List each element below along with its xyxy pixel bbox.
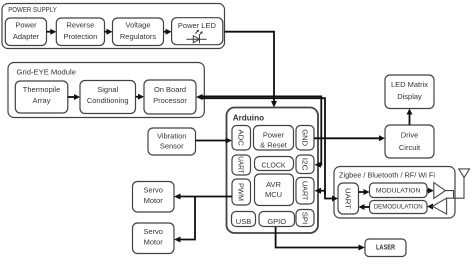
wire Reverse Protection to Voltage Regulators (105, 31, 108, 33)
port SPI (296, 210, 314, 227)
svg-text:Protection: Protection (64, 32, 98, 41)
svg-text:Power: Power (263, 130, 285, 139)
arrowhead into LASER (359, 245, 366, 251)
svg-text:Power: Power (15, 21, 37, 30)
svg-text:Array: Array (33, 96, 51, 105)
block AVR MCU (255, 174, 294, 206)
svg-text:AVR: AVR (266, 180, 281, 189)
svg-text:POWER SUPPLY: POWER SUPPLY (8, 5, 57, 14)
amplifier bottom triangle (433, 198, 447, 214)
arrowhead into UART zigbee (from demodulation) (359, 204, 365, 210)
svg-text:MODULATION: MODULATION (376, 188, 421, 195)
arrowhead into MODULATION (364, 189, 370, 195)
port UART left (232, 155, 251, 175)
arrowhead into LED Matrix Display (407, 109, 413, 115)
wire PWM to Servo Motor 1 (180, 196, 233, 198)
LED arrowhead 1 (196, 30, 199, 33)
svg-text:Servo: Servo (143, 185, 163, 194)
svg-text:Drive: Drive (401, 131, 419, 140)
amplifier top triangle (434, 183, 446, 199)
wire amplifier apex to antenna node (445, 191, 453, 199)
arrowhead into Signal Conditioning (74, 94, 80, 100)
block Servo Motor 2 (133, 223, 175, 254)
arrowhead into Arduino top (271, 101, 277, 108)
arrowhead into DEMODULATION (427, 204, 433, 210)
wire UART tap down to zigbee (325, 191, 333, 199)
arrowhead into I2C (315, 162, 322, 168)
arrowhead into Reverse Protection (50, 29, 56, 35)
arrowhead into amplifier (428, 188, 434, 194)
arrowhead into On Board Processor (from Signal) (138, 94, 144, 100)
wire On Board Processor to I2C (elbow) (202, 96, 321, 160)
block On Board Processor (144, 80, 196, 114)
wire UART zigbee to MODULATION (359, 191, 365, 193)
block Power & Reset (254, 126, 294, 151)
wire Voltage Regulators to Power LED (164, 31, 167, 33)
block MODULATION (370, 183, 428, 198)
svg-text:SPI: SPI (301, 212, 310, 225)
port PWM (232, 179, 251, 205)
svg-text:UART: UART (344, 188, 353, 209)
svg-text:Thermopile: Thermopile (23, 85, 61, 94)
block Power Adapter (5, 18, 46, 46)
svg-text:GPIO: GPIO (267, 217, 286, 226)
arrowhead into Servo Motor 1 (174, 194, 181, 200)
wire Signal to On Board Processor (136, 96, 140, 98)
port GPIO (259, 212, 295, 227)
wire elbow turn into I2C (320, 161, 323, 165)
block Vibration Sensor (148, 128, 196, 155)
block Reverse Protection (56, 18, 104, 46)
svg-text:Arduino: Arduino (233, 114, 264, 123)
wire UART right to tap (321, 190, 326, 192)
svg-text:LED Matrix: LED Matrix (391, 80, 428, 89)
arrowhead into Voltage Regulators (107, 29, 113, 35)
block LASER (365, 239, 406, 257)
svg-text:USB: USB (236, 217, 251, 226)
wire PSU to Arduino (225, 32, 275, 102)
block Voltage Regulators (113, 18, 164, 46)
svg-text:MCU: MCU (265, 190, 282, 199)
svg-text:ADC: ADC (237, 129, 246, 146)
wire Vibration Sensor to ADC (196, 140, 227, 142)
svg-text:Circuit: Circuit (399, 143, 421, 152)
svg-text:PWM: PWM (237, 183, 246, 201)
wire MODULATION to amplifier (427, 190, 429, 192)
svg-text:GND: GND (301, 129, 310, 147)
svg-text:DEMODULATION: DEMODULATION (374, 204, 423, 211)
diode triangle (193, 36, 199, 43)
antenna (459, 169, 470, 178)
group POWER SUPPLY (2, 4, 225, 49)
svg-text:On Board: On Board (154, 85, 186, 94)
svg-text:Conditioning: Conditioning (87, 96, 129, 105)
svg-text:Motor: Motor (144, 196, 164, 205)
svg-text:Processor: Processor (153, 96, 187, 105)
svg-text:Reverse: Reverse (66, 21, 94, 30)
port GND (296, 126, 314, 151)
wire GND to Drive Circuit (314, 137, 380, 139)
svg-text:I2C: I2C (301, 158, 310, 172)
LED symbol in Power LED box (186, 30, 206, 43)
svg-text:Grid-EYE Module: Grid-EYE Module (17, 67, 77, 76)
arrowhead into ADC (226, 138, 233, 144)
svg-text:Vibration: Vibration (157, 131, 186, 140)
wires and arrows (47, 32, 433, 248)
svg-text:Regulators: Regulators (120, 32, 157, 41)
svg-text:LASER: LASER (376, 245, 395, 252)
block Servo Motor 1 (133, 182, 175, 213)
group Arduino (227, 108, 319, 234)
arrowhead into Power LED (166, 29, 172, 35)
port UART zigbee (338, 183, 359, 214)
wire Drive Circuit to LED Matrix (409, 114, 411, 125)
arrowhead into Drive Circuit (379, 135, 385, 141)
svg-text:Power LED: Power LED (178, 21, 217, 30)
wire GPIO to LASER (276, 227, 360, 248)
wire On Board Processor to UART tap (vertical) (202, 98, 325, 194)
LED emission arrows (195, 30, 198, 33)
svg-text:CLOCK: CLOCK (261, 163, 285, 170)
arrowhead into UART zigbee (from arduino) (332, 196, 338, 202)
svg-text:Adapter: Adapter (13, 32, 40, 41)
svg-text:Zigbee / Bluetooth / RF/ Wi Fi: Zigbee / Bluetooth / RF/ Wi Fi (339, 171, 435, 180)
arrowhead into On Board Processor (from I2C wire) (196, 94, 203, 100)
svg-text:UART: UART (301, 181, 310, 201)
svg-text:Signal: Signal (97, 85, 118, 94)
block LED Matrix Display (385, 75, 434, 109)
arrowhead into Servo Motor 2 (174, 237, 181, 243)
block Drive Circuit (385, 125, 434, 158)
block DEMODULATION (370, 201, 428, 214)
wire Thermopile to Signal (68, 96, 75, 98)
wire DEMODULATION to UART zigbee (364, 206, 370, 208)
wire branch to Servo Motor 2 (180, 197, 196, 240)
svg-text:Sensor: Sensor (160, 141, 184, 150)
LED arrowhead 2 (200, 31, 203, 34)
port ADC (232, 126, 251, 151)
diode wire (186, 38, 206, 40)
svg-text:& Reset: & Reset (260, 141, 288, 150)
svg-text:Display: Display (397, 92, 422, 101)
arrowheads (50, 29, 434, 251)
port USB (232, 212, 256, 227)
block Power LED (172, 18, 223, 45)
group Zigbee / Bluetooth / RF / WiFi (334, 167, 455, 219)
svg-text:UART: UART (237, 156, 246, 174)
port I2C (296, 155, 314, 174)
wire antenna feed (447, 178, 464, 199)
block CLOCK (255, 157, 294, 171)
svg-text:Servo: Servo (143, 227, 163, 236)
rotated port labels (237, 129, 353, 224)
wire amplifier to DEMODULATION (431, 205, 434, 207)
svg-text:Motor: Motor (144, 238, 164, 247)
group Grid-EYE Module (8, 63, 204, 118)
arrowhead into UART right (from tap) (315, 188, 322, 194)
wire Power Adapter to Reverse Protection (47, 31, 52, 33)
svg-text:Voltage: Voltage (125, 21, 150, 30)
port UART right (296, 178, 314, 205)
diode cathode bar (199, 35, 201, 43)
block Thermopile Array (15, 81, 68, 113)
block Signal Conditioning (80, 81, 136, 114)
